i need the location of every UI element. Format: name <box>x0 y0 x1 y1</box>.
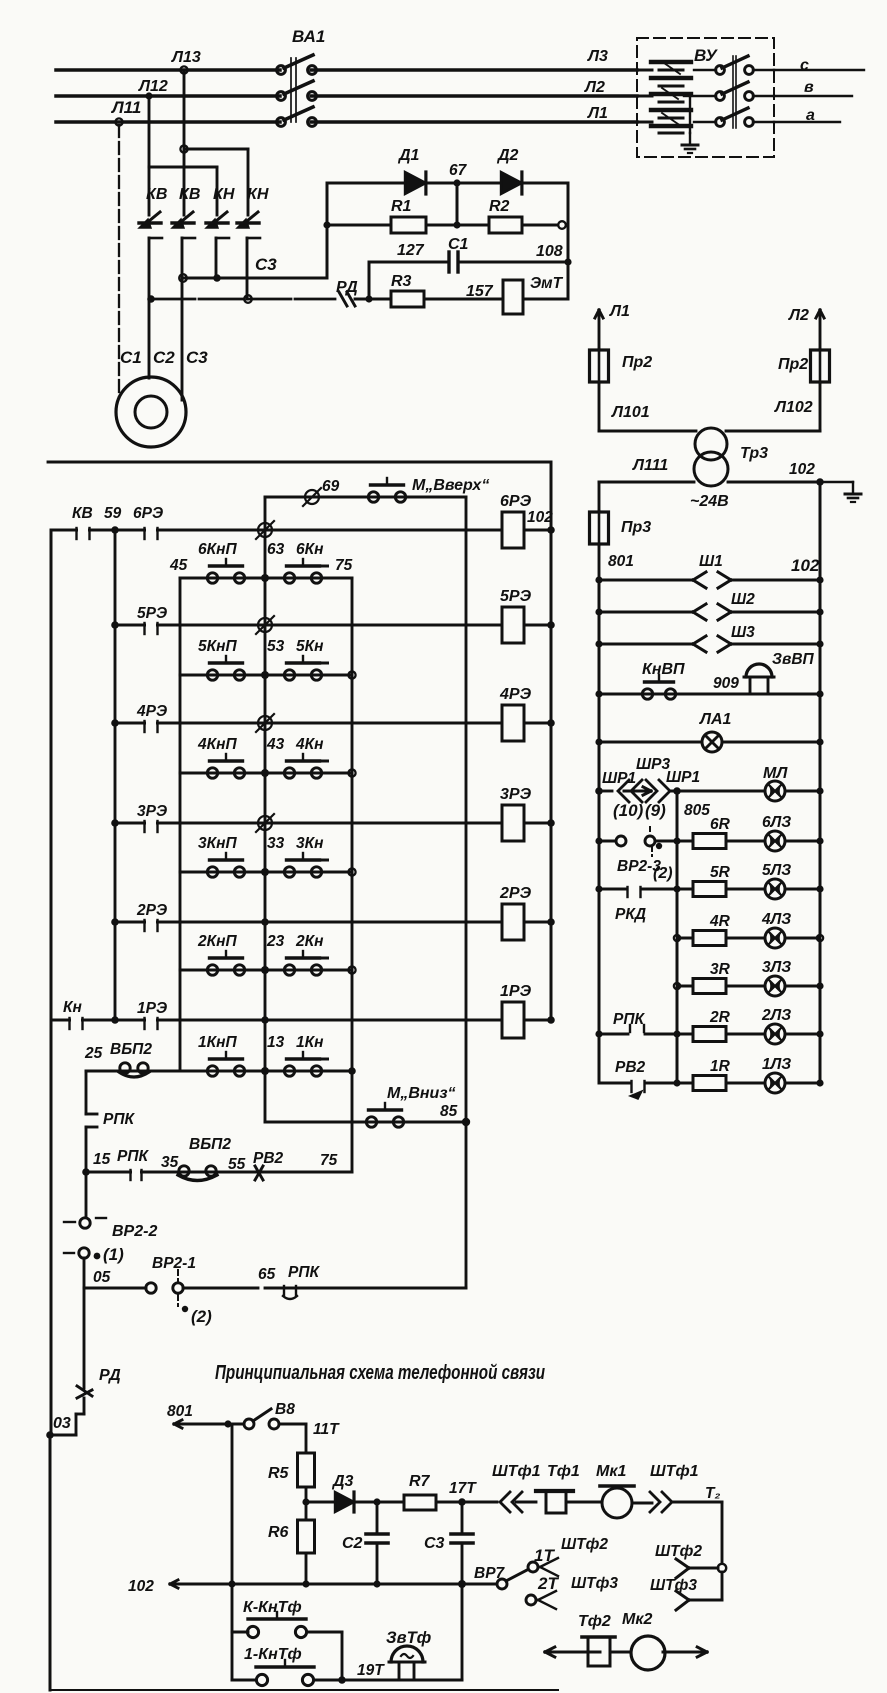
button 1КнП <box>207 1066 217 1076</box>
row KnVP ZvVP <box>599 693 820 696</box>
resistor R6 <box>305 1502 308 1520</box>
svg-text:(2): (2) <box>653 865 673 882</box>
svg-text:ВБП2: ВБП2 <box>110 1041 152 1058</box>
solenoid EmT <box>503 280 523 314</box>
wire drop to buttons <box>231 1424 234 1584</box>
wire vertical 180 <box>179 578 182 1071</box>
svg-text:ШР1: ШР1 <box>602 770 636 787</box>
svg-text:35: 35 <box>161 1154 179 1171</box>
svg-text:Мк2: Мк2 <box>622 1611 652 1628</box>
svg-text:3Кн: 3Кн <box>296 835 324 852</box>
svg-text:Л11: Л11 <box>110 98 141 117</box>
svg-text:КВ: КВ <box>179 186 200 203</box>
svg-text:Д3: Д3 <box>331 1473 354 1490</box>
button 2КнП <box>207 965 217 975</box>
svg-text:65: 65 <box>258 1266 276 1283</box>
wire output a <box>774 121 840 123</box>
svg-text:М„Вверх“: М„Вверх“ <box>412 477 489 494</box>
contact 3РЭ <box>111 819 119 827</box>
svg-text:6КнП: 6КнП <box>198 541 238 558</box>
button row 2 <box>180 969 352 972</box>
svg-text:ВР2-2: ВР2-2 <box>112 1223 157 1240</box>
svg-text:5ЛЗ: 5ЛЗ <box>762 862 791 879</box>
switch VU contacts <box>694 69 716 71</box>
svg-text:102: 102 <box>789 461 815 478</box>
svg-text:3РЭ: 3РЭ <box>137 803 167 820</box>
wire phase line L2 <box>56 94 280 98</box>
svg-text:ШТф1: ШТф1 <box>492 1463 541 1480</box>
resistor R5 <box>305 1424 308 1453</box>
wire bottom row <box>342 1679 462 1682</box>
wire C1 feeder <box>118 125 120 398</box>
svg-text:РПК: РПК <box>117 1148 149 1165</box>
contact RV2 row <box>255 1166 263 1180</box>
contact 6РЭ <box>111 526 119 534</box>
lamp 3ЛЗ <box>765 976 785 996</box>
svg-text:5РЭ: 5РЭ <box>500 588 532 605</box>
node row 2 right <box>348 966 355 973</box>
contactor contact at x=183 <box>176 212 193 226</box>
labels KV KV KN KN <box>146 186 269 203</box>
svg-text:R3: R3 <box>391 273 412 290</box>
ground in VU <box>689 133 691 145</box>
svg-text:Д2: Д2 <box>496 147 519 164</box>
relay coil 5РЭ <box>502 607 524 643</box>
svg-text:45: 45 <box>169 557 188 574</box>
wire output v <box>774 95 852 97</box>
switch BA1 <box>277 66 286 75</box>
svg-text:С3: С3 <box>186 348 208 367</box>
contact RD lower <box>77 1386 92 1396</box>
resistor R2 <box>457 224 489 227</box>
contactor contact at x=150 <box>143 212 160 226</box>
svg-text:2Т: 2Т <box>537 1574 559 1593</box>
button 6КнП <box>207 573 217 583</box>
svg-text:909: 909 <box>713 675 739 692</box>
svg-text:Принципиальная схема телефонно: Принципиальная схема телефонной связи <box>215 1361 545 1384</box>
svg-text:33: 33 <box>267 835 285 852</box>
bell ZvVP <box>746 664 772 677</box>
svg-text:(9): (9) <box>645 801 666 820</box>
wire T2 down <box>721 1502 724 1563</box>
wire left bus <box>50 530 53 1435</box>
svg-text:ВА1: ВА1 <box>292 27 325 46</box>
switch VR2-2 <box>85 1172 88 1217</box>
label 157 <box>466 283 494 300</box>
svg-text:25: 25 <box>84 1045 103 1062</box>
lamp 4ЛЗ <box>765 928 785 948</box>
svg-text:4КнП: 4КнП <box>197 736 238 753</box>
svg-text:R6: R6 <box>268 1524 289 1541</box>
svg-text:805: 805 <box>684 802 710 819</box>
svg-text:КН: КН <box>247 186 269 203</box>
svg-text:5КнП: 5КнП <box>198 638 238 655</box>
switch V8 <box>228 1423 244 1426</box>
svg-text:Л2: Л2 <box>584 79 605 96</box>
diode D1 <box>405 172 426 194</box>
contact RV2 right col <box>599 1082 630 1085</box>
row RV2 y1172 <box>86 1171 352 1174</box>
ground right <box>820 481 853 483</box>
svg-text:6РЭ: 6РЭ <box>500 493 532 510</box>
button 1Кн <box>284 1066 294 1076</box>
relay coil 2РЭ <box>502 904 524 940</box>
button K-KnTf <box>232 1631 248 1634</box>
row LA1 <box>599 741 702 744</box>
rung wire 5РЭ <box>115 624 502 627</box>
diode D2 <box>457 182 501 185</box>
wire vertical 466 <box>465 497 468 1288</box>
svg-text:Ш2: Ш2 <box>731 591 755 608</box>
svg-text:РКД: РКД <box>615 906 646 923</box>
svg-text:Д1: Д1 <box>397 147 420 164</box>
rung wire 4РЭ <box>115 722 502 725</box>
svg-text:3ЛЗ: 3ЛЗ <box>762 959 791 976</box>
switch VR7 <box>497 1579 507 1589</box>
svg-text:Пр3: Пр3 <box>621 519 651 536</box>
mic Mk1 <box>600 1484 634 1488</box>
row 6R 6ЛЗ <box>677 840 693 843</box>
node jog to KN3 <box>180 145 187 152</box>
contact 1РЭ <box>111 1016 119 1024</box>
svg-text:05: 05 <box>93 1269 111 1286</box>
wire top rail y183 <box>327 182 405 185</box>
svg-text:11Т: 11Т <box>313 1421 340 1438</box>
svg-text:ВБП2: ВБП2 <box>189 1136 231 1153</box>
wire 801 lead <box>174 1423 240 1426</box>
svg-text:2ЛЗ: 2ЛЗ <box>761 1007 791 1024</box>
svg-text:ЛА1: ЛА1 <box>699 711 732 728</box>
svg-text:1Кн: 1Кн <box>296 1034 324 1051</box>
svg-text:2РЭ: 2РЭ <box>499 885 532 902</box>
svg-text:17Т: 17Т <box>449 1480 477 1497</box>
svg-text:53: 53 <box>267 638 285 655</box>
svg-text:РД: РД <box>336 279 358 296</box>
svg-text:03: 03 <box>53 1415 71 1432</box>
labels L3 L2 L1 right <box>584 48 608 122</box>
svg-text:1Т: 1Т <box>534 1546 555 1565</box>
svg-text:102: 102 <box>791 556 820 575</box>
wire left drop x86 <box>85 1071 88 1114</box>
resistor R1 <box>327 224 391 227</box>
svg-text:Л12: Л12 <box>138 78 168 95</box>
svg-text:ВР7: ВР7 <box>474 1565 506 1582</box>
fuse Pr2 left <box>590 350 609 382</box>
svg-text:4R: 4R <box>709 913 731 930</box>
wire L1 into stack <box>637 121 652 124</box>
wire L1 arrow <box>598 310 601 350</box>
chevrons out <box>650 1492 660 1512</box>
wire vertical 265 <box>264 497 267 1122</box>
svg-text:43: 43 <box>266 736 285 753</box>
rung wire 1РЭ <box>51 1019 502 1022</box>
phone Tf2 Mk2 lead <box>545 1651 600 1654</box>
svg-text:Ш1: Ш1 <box>699 553 723 570</box>
rung wire 6РЭ <box>51 529 502 532</box>
lamp 5ЛЗ <box>765 879 785 899</box>
wire KN3 to C3 line <box>215 238 218 278</box>
svg-text:Мк1: Мк1 <box>596 1463 626 1480</box>
row 4R 4ЛЗ <box>677 937 693 940</box>
svg-text:МЛ: МЛ <box>763 765 788 782</box>
button KnVP <box>642 689 652 699</box>
svg-text:Тр3: Тр3 <box>740 445 768 462</box>
svg-text:С1: С1 <box>448 236 469 253</box>
button row 6 <box>180 577 352 580</box>
node 13 <box>261 1067 269 1075</box>
svg-text:R5: R5 <box>268 1465 290 1482</box>
wire C3 contact to motor <box>181 238 184 400</box>
svg-text:1РЭ: 1РЭ <box>500 983 532 1000</box>
fuse Pr3 <box>598 482 601 512</box>
diode D3 <box>306 1501 335 1504</box>
svg-text:4Кн: 4Кн <box>295 736 324 753</box>
svg-text:в: в <box>804 79 814 96</box>
branch M Vverh <box>265 496 466 499</box>
svg-text:В8: В8 <box>275 1401 295 1418</box>
wire RD line <box>151 298 335 301</box>
svg-text:85: 85 <box>440 1103 458 1120</box>
svg-text:4РЭ: 4РЭ <box>499 686 532 703</box>
contact VBP2 row <box>179 1166 189 1176</box>
svg-text:РПК: РПК <box>288 1264 320 1281</box>
button 4КнП <box>207 768 217 778</box>
resistor 5R <box>693 882 726 897</box>
svg-text:67: 67 <box>449 162 468 179</box>
svg-text:РПК: РПК <box>103 1111 135 1128</box>
svg-text:(2): (2) <box>191 1307 212 1326</box>
jack ShTf2 right <box>689 1567 718 1570</box>
relay coil 6РЭ <box>502 512 524 548</box>
lamp 6ЛЗ <box>765 831 785 851</box>
label D1 <box>397 147 420 164</box>
svg-text:5R: 5R <box>710 864 731 881</box>
svg-text:Тф2: Тф2 <box>578 1613 611 1630</box>
svg-text:2КнП: 2КнП <box>197 933 238 950</box>
node 53 <box>261 671 269 679</box>
resistor 4R <box>693 931 726 946</box>
button 6Кн <box>284 573 294 583</box>
svg-text:102: 102 <box>128 1578 154 1595</box>
svg-text:РПК: РПК <box>613 1011 645 1028</box>
motor rotor <box>135 396 167 428</box>
svg-text:5РЭ: 5РЭ <box>137 605 167 622</box>
wire primary <box>599 430 696 433</box>
wire drop to RD <box>83 1288 86 1388</box>
svg-text:75: 75 <box>320 1152 338 1169</box>
title <box>215 1361 545 1384</box>
wire L3 into stack <box>637 69 652 72</box>
svg-text:23: 23 <box>266 933 285 950</box>
svg-text:Л3: Л3 <box>587 48 608 65</box>
rung wire 2РЭ <box>115 921 502 924</box>
svg-text:К-КнТф: К-КнТф <box>243 1599 302 1616</box>
svg-text:ЗвТф: ЗвТф <box>386 1629 432 1647</box>
label KV 59 6RE <box>72 505 163 522</box>
contact RPK right col <box>599 1033 628 1036</box>
label C3 top <box>255 255 277 274</box>
svg-text:(1): (1) <box>103 1245 124 1264</box>
wire up to rail <box>461 1584 464 1680</box>
svg-text:Л102: Л102 <box>774 399 813 416</box>
contact RKD <box>599 888 627 891</box>
label BA1 <box>292 27 325 46</box>
svg-text:6ЛЗ: 6ЛЗ <box>762 814 791 831</box>
row VR2-1 y1288 <box>84 1287 146 1290</box>
svg-text:ШТф3: ШТф3 <box>650 1577 697 1594</box>
button 3КнП <box>207 867 217 877</box>
wire right edge <box>567 183 570 299</box>
svg-text:Л2: Л2 <box>788 307 809 324</box>
resistor R7 <box>377 1501 404 1504</box>
switch VR2-3 <box>599 840 616 843</box>
node 23 <box>261 966 269 974</box>
jack ShTf3 right <box>689 1599 722 1602</box>
fuse Pr2 right <box>811 350 830 382</box>
svg-text:ШТф2: ШТф2 <box>655 1543 702 1560</box>
svg-text:R1: R1 <box>391 198 412 215</box>
svg-text:1-КнТф: 1-КнТф <box>244 1646 302 1663</box>
wire inner left edge <box>368 262 371 299</box>
svg-text:С1: С1 <box>120 348 142 367</box>
motor stator <box>116 377 186 447</box>
svg-text:1ЛЗ: 1ЛЗ <box>762 1056 791 1073</box>
wire KN4 to RD line <box>246 238 249 299</box>
svg-text:С3: С3 <box>255 255 277 274</box>
contact 5РЭ <box>111 621 119 629</box>
button 5Кн <box>284 670 294 680</box>
svg-text:102: 102 <box>527 509 553 526</box>
svg-text:108: 108 <box>536 243 563 260</box>
label L13 <box>110 49 201 117</box>
contactor contact at x=217 <box>210 212 227 226</box>
wire C2 contact to motor <box>148 238 151 378</box>
button 5КнП <box>207 670 217 680</box>
node 03 <box>46 1431 54 1439</box>
svg-text:6РЭ: 6РЭ <box>133 505 163 522</box>
labels c v a <box>800 57 815 124</box>
svg-text:1R: 1R <box>710 1058 731 1075</box>
row 1R 1ЛЗ <box>677 1082 693 1085</box>
svg-text:c: c <box>800 57 809 74</box>
svg-text:С2: С2 <box>342 1535 363 1552</box>
svg-text:3R: 3R <box>710 961 731 978</box>
svg-text:С3: С3 <box>424 1535 445 1552</box>
node 33 <box>261 868 269 876</box>
svg-text:157: 157 <box>466 283 494 300</box>
wire L2 into stack <box>637 95 652 98</box>
button 2Кн <box>284 965 294 975</box>
lamp 2ЛЗ <box>765 1024 785 1044</box>
svg-text:Т₂: Т₂ <box>705 1485 720 1502</box>
svg-text:3КнП: 3КнП <box>198 835 238 852</box>
contact Kn <box>71 1018 81 1022</box>
resistor 3R <box>693 979 726 994</box>
relay coil 3РЭ <box>502 805 524 841</box>
svg-text:1РЭ: 1РЭ <box>137 1000 167 1017</box>
svg-text:Пр2: Пр2 <box>622 354 652 371</box>
node L12 <box>145 92 152 99</box>
wire vertical 352 <box>351 578 354 1172</box>
wire right col buses <box>598 580 601 1083</box>
rung wire 3РЭ <box>115 822 502 825</box>
capacitor C2 <box>376 1502 379 1532</box>
svg-text:Л101: Л101 <box>611 404 650 421</box>
svg-text:2Кн: 2Кн <box>295 933 324 950</box>
transformer Tr3 <box>695 428 727 460</box>
resistor R3 <box>369 298 391 301</box>
wire C3 bus to rectifier box <box>183 277 327 280</box>
connector Ш1 <box>599 579 693 582</box>
svg-text:19Т: 19Т <box>357 1662 385 1679</box>
node row 3 right <box>348 868 355 875</box>
lamp LA1 <box>702 732 722 752</box>
svg-text:801: 801 <box>167 1403 193 1420</box>
row 2R 2ЛЗ <box>677 1033 693 1036</box>
contact RPK vertical <box>86 1113 97 1116</box>
svg-text:4РЭ: 4РЭ <box>136 703 167 720</box>
rectifier stack plates <box>651 60 691 64</box>
wire left bus bottom <box>49 1435 52 1690</box>
svg-text:С2: С2 <box>153 348 175 367</box>
resistor 2R <box>693 1027 726 1042</box>
svg-text:5Кн: 5Кн <box>296 638 324 655</box>
svg-text:R2: R2 <box>489 198 510 215</box>
svg-text:13: 13 <box>267 1034 285 1051</box>
row 5R 5ЛЗ <box>677 888 693 891</box>
crossing symbols on 265 <box>258 523 272 537</box>
svg-text:69: 69 <box>322 478 340 495</box>
svg-text:Ш3: Ш3 <box>731 624 755 641</box>
svg-text:Л111: Л111 <box>632 457 668 474</box>
node 63 <box>261 574 269 582</box>
svg-text:Пр2: Пр2 <box>778 356 808 373</box>
wire right bus <box>550 462 553 1020</box>
svg-text:63: 63 <box>267 541 285 558</box>
wire control top rail <box>48 461 551 464</box>
svg-text:РВ2: РВ2 <box>615 1059 646 1076</box>
svg-text:КВ: КВ <box>146 186 167 203</box>
relay coil 4РЭ <box>502 705 524 741</box>
contact RPK row2 <box>286 1286 295 1290</box>
wire L2 arrow <box>819 310 822 350</box>
lamp 1ЛЗ <box>765 1073 785 1093</box>
svg-text:59: 59 <box>104 505 122 522</box>
button row 1 <box>86 1070 352 1073</box>
button 4Кн <box>284 768 294 778</box>
contact VBP2 bridging <box>120 1063 130 1073</box>
phone Tf1 <box>536 1489 573 1493</box>
button 3Кн <box>284 867 294 877</box>
svg-text:2R: 2R <box>709 1009 731 1026</box>
svg-text:КН: КН <box>213 186 235 203</box>
button row 5 <box>180 674 352 677</box>
wire output c <box>774 69 864 71</box>
svg-text:ШР1: ШР1 <box>666 769 700 786</box>
button 1-KnTf <box>232 1679 256 1682</box>
svg-text:ВР2-1: ВР2-1 <box>152 1255 196 1272</box>
wire C3 feeder <box>183 73 186 215</box>
button M Vniz <box>366 1117 376 1127</box>
node L11 <box>115 118 122 125</box>
contact 2РЭ <box>111 918 119 926</box>
connector Ш3 <box>599 643 693 646</box>
svg-text:ШТф2: ШТф2 <box>561 1536 608 1553</box>
svg-text:РВ2: РВ2 <box>253 1150 284 1167</box>
svg-text:Кн: Кн <box>63 999 83 1016</box>
svg-text:РД: РД <box>99 1367 121 1384</box>
svg-text:ШТф1: ШТф1 <box>650 1463 699 1480</box>
